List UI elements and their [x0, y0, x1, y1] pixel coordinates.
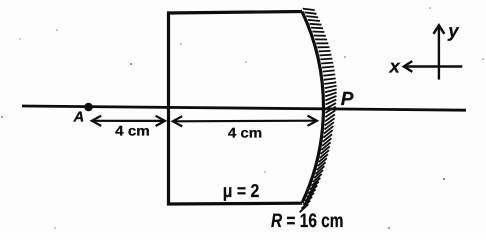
coordinate axes: x axis arrow (left): [404, 61, 463, 72]
svg-text:y: y: [447, 20, 460, 41]
svg-text:x: x: [389, 56, 401, 77]
svg-text:μ = 2: μ = 2: [223, 180, 260, 201]
object point A (dot): [84, 103, 93, 112]
coordinate axes: y axis arrow (up): [434, 25, 445, 79]
svg-text:4 cm: 4 cm: [228, 125, 262, 141]
hatching on silvered mirror surface: [300, 9, 337, 213]
svg-text:4 cm: 4 cm: [115, 123, 150, 139]
curved silvered surface (right face, R = 16 cm): [302, 12, 323, 204]
lens body (plano-convex glass block, flat left face): [169, 12, 303, 205]
dimension arrow: A to flat face (4 cm): [92, 116, 165, 126]
optical axis (principal axis line): [22, 106, 466, 110]
svg-text:A: A: [73, 109, 85, 125]
dimension arrow: flat face to pole P (4 cm): [173, 116, 317, 127]
svg-text:P: P: [341, 89, 354, 110]
svg-text:R = 16 cm: R = 16 cm: [271, 210, 344, 232]
